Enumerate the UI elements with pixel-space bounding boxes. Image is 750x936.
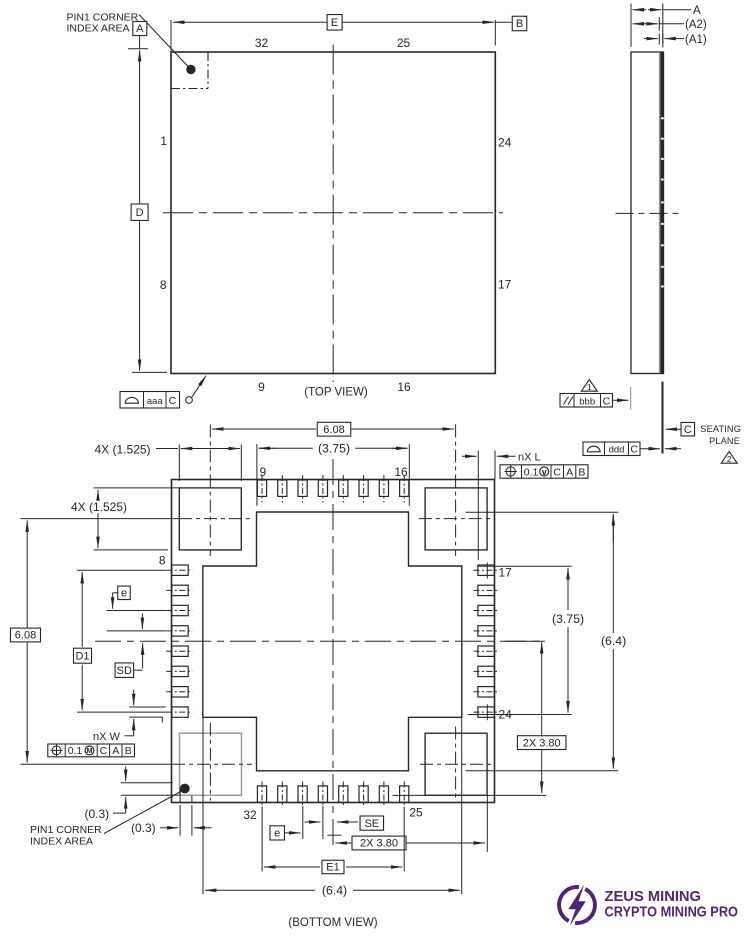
svg-text:9: 9 [258,380,265,394]
svg-text:(0.3): (0.3) [131,821,156,835]
svg-text:C: C [630,444,638,456]
svg-text:A: A [566,466,573,478]
svg-text:nX L: nX L [518,451,541,463]
dim A leader [663,9,691,11]
C arrow to seating plane [666,428,682,430]
nX L outer arrow [462,455,477,457]
chamfer right edge [191,795,193,802]
seating plane line [662,382,664,454]
nX L right extension [494,451,496,480]
dim A1 left arrow [644,38,658,40]
E1 right arrow [346,866,402,868]
bbb arrow [612,399,629,401]
SE leader arrow [337,821,358,823]
svg-text:B: B [516,18,523,30]
top view package outline [171,52,495,374]
extension tick through pin 17 [486,563,488,579]
3.75 top left arrow [259,447,275,449]
chamfer top reference line [121,782,173,784]
svg-text:16: 16 [397,380,411,394]
D dim top tick [128,48,148,50]
E1 left arrow [264,866,320,868]
pin 21 [478,646,494,656]
svg-text:24: 24 [498,136,512,150]
svg-text:2X 3.80: 2X 3.80 [360,838,398,850]
dim A2 line right arrow [645,23,658,25]
pin 5 [172,626,188,636]
svg-text:M: M [86,746,92,755]
6.4 right dim lower arrow [612,649,614,769]
aaa leader arrow to bottom edge [192,376,207,398]
svg-text:25: 25 [409,806,423,820]
E dim line to B box [495,21,511,23]
6.4 bottom left extension [202,717,204,894]
pin 2 [172,687,188,697]
top-right pad vertical centerline [455,425,457,557]
W arrow down [133,690,135,706]
6.4 bottom right extension [461,717,463,894]
note flag triangle 1 [581,380,597,392]
A1 left extension [658,34,660,45]
pad right edge extension down [486,795,488,852]
pin1 bottom edge extension [129,716,162,718]
pin1 bottom ext tick [161,717,163,722]
e bottom inner arrow [305,821,321,823]
dim A1 leader [676,38,684,40]
corner pad top-left [179,488,241,550]
pad top edge extension left [94,487,180,489]
SD leader elbow [133,669,143,671]
pin 16 [400,480,409,496]
position tolerance frame nX L [500,465,588,479]
svg-text:PIN1 CORNER: PIN1 CORNER [30,824,102,836]
svg-text:9: 9 [259,465,266,479]
3.75 top right extension [408,444,410,506]
3.75 top left extension [256,444,258,506]
6.4 bottom left arrow [205,889,315,891]
e bottom leader arrow [285,832,301,834]
svg-text:e: e [274,828,280,840]
svg-text:SE: SE [364,818,379,830]
top view vertical centerline [332,45,334,383]
E dim line left half [173,21,327,23]
svg-text:A: A [112,745,119,757]
pad bottom edge extension left [94,549,168,551]
pin 19 [478,605,494,615]
pad bottom edge extension left [121,794,179,796]
aaa leader circle [186,397,193,404]
svg-text:INDEX AREA: INDEX AREA [67,23,130,35]
pad right edge extension up [240,445,242,482]
pin24 bottom edge extension [468,714,572,716]
3.75 right upper arrow [567,568,569,600]
6.08 left dim lower [26,642,28,763]
top view group [67,11,527,408]
dim E label box [327,15,342,30]
D dim bottom tick [132,371,167,373]
svg-text:ddd: ddd [609,444,625,455]
pad bottom extension through pin 25 [393,794,547,796]
svg-text:25: 25 [397,36,411,50]
svg-text:(3.75): (3.75) [552,612,584,626]
bottom-right pad vertical centerline [455,727,457,801]
4X 1.525 left arrow [181,448,196,450]
dim A2 leader [659,23,684,25]
2X 3.80 bottom left arrow [335,842,352,844]
svg-text:17: 17 [499,566,513,580]
extension tick through pin 24 [486,704,488,720]
pin 29 [318,786,327,802]
pin 25 [400,786,409,802]
svg-text:PIN1 CORNER: PIN1 CORNER [67,11,139,23]
logo lightning bolt [568,884,586,926]
profile ddd C feature frame [583,442,640,456]
svg-text:24: 24 [499,708,513,722]
pin8 centerline extension [77,569,166,571]
svg-text:aaa: aaa [147,396,164,407]
svg-text:(3.75): (3.75) [318,441,350,455]
0.3 vert up arrow [125,797,127,809]
A dim right extension [662,4,664,48]
position tolerance frame nX W [48,744,135,757]
pin6 centerline extension [107,610,167,612]
pin 28 [339,786,348,802]
top view horizontal centerline [163,212,503,214]
svg-text:CRYPTO MINING PRO: CRYPTO MINING PRO [605,904,739,921]
chamfer left edge [179,788,181,802]
svg-text:e: e [121,588,127,600]
pin 12 [318,480,327,496]
pin1 top edge extension [129,706,165,708]
top-right pad horizontal centerline [419,518,494,520]
ddd arrow right side [665,448,681,450]
pin 17 [478,565,494,575]
svg-text:C: C [553,466,561,478]
bottom view group [11,422,632,929]
corner pad top-right [425,488,487,550]
pin1 index area box right edge [207,52,209,89]
datum A box [133,22,147,36]
svg-text:16: 16 [394,465,408,479]
bottom-left pad horizontal centerline [172,763,252,765]
0.3 horiz arrow left [194,827,212,829]
dim A line right arrow [648,9,661,11]
bottom view package outline [172,480,495,803]
SD arrow up to centerline [142,643,144,668]
svg-text:2X 3.80: 2X 3.80 [523,737,561,749]
svg-text:bbb: bbb [579,396,595,407]
4X 1.525 leader [156,448,178,450]
pin 7 [172,585,188,595]
dim D label box [131,204,148,221]
svg-text:8: 8 [160,278,167,292]
svg-text:B: B [125,745,132,757]
dim e bottom box [270,826,285,840]
D dim line upper [139,50,141,203]
corner pad bottom-left (pin1, grey) [180,733,242,795]
parallelism bbb C feature frame [560,394,613,408]
pin 14 [359,480,368,496]
e leader elbow [113,592,118,594]
svg-text:4X (1.525): 4X (1.525) [71,500,127,514]
pin 3 [172,666,188,676]
4X 1.525 dim line [181,448,240,450]
side view centerline [616,212,680,214]
svg-text:C: C [684,424,692,436]
pin 31 [278,786,287,802]
svg-text:6.08: 6.08 [323,424,344,436]
4X 1.525 vert up arrow [97,490,99,502]
svg-text:(A2): (A2) [685,19,707,31]
svg-text:A: A [136,23,144,35]
bottom-right pad horizontal centerline [420,763,492,765]
nX L left extension [477,451,479,561]
svg-text:1: 1 [587,382,592,392]
E1 right extension [403,807,405,872]
svg-text:D: D [136,207,144,219]
svg-text:E1: E1 [326,862,339,874]
bottom-left pad vertical centerline [209,723,211,801]
svg-text:(6.4): (6.4) [601,634,626,648]
dim 4X 1.525 left text [66,501,132,513]
svg-text:SEATING: SEATING [700,424,741,434]
svg-text:v: v [542,467,547,477]
dim 2X 3.80 right box [517,736,566,750]
side view group [560,4,741,465]
pin 6 [172,605,188,615]
svg-text:32: 32 [255,36,269,50]
dim 6.08 top box [317,422,351,436]
pin 10 [278,480,287,496]
dim SE box [360,816,384,830]
svg-text:32: 32 [243,808,257,822]
svg-text:17: 17 [498,278,512,292]
pin1 index dot (top view) [186,65,195,74]
nX L arrow from text [497,455,516,457]
cross bottom edge extension right [466,770,619,772]
dim e left box [118,586,131,600]
pin 18 [478,585,494,595]
side view lead inner edge [658,52,660,374]
pin 24 [478,707,494,717]
pin 23 [478,687,494,697]
2X 3.80 right upper arrow [541,642,543,736]
svg-text:SD: SD [117,665,132,677]
svg-text:INDEX AREA: INDEX AREA [30,836,93,848]
svg-text:D1: D1 [75,650,89,662]
6.08 top dim line right [352,428,455,430]
6.08 top dim line left [212,428,316,430]
svg-text:C: C [603,396,611,408]
datum C box [681,422,695,436]
0.3 vert down arrow [125,767,127,782]
pin1 index area box bottom edge [171,88,208,90]
dim 6.4 right text [596,635,632,648]
bbb extension line [630,387,632,410]
E dim left extension [170,20,172,52]
svg-text:ZEUS MINING: ZEUS MINING [605,888,702,905]
pin17 top edge extension [477,565,571,567]
svg-text:1: 1 [160,134,167,148]
note flag triangle 2 [721,452,737,464]
pin 27 [359,786,368,802]
svg-text:0.1: 0.1 [68,745,83,757]
pin1 centerline extension [77,711,167,713]
4X 1.525 right arrow [225,448,240,450]
pad left edge extension up [178,445,180,482]
svg-text:B: B [578,466,585,478]
top-left pad horizontal centerline [179,518,250,520]
W leader elbow [125,735,134,737]
dim D1 box [74,648,92,663]
D1 dim lower arrow [81,665,83,711]
pin 26 [379,786,388,802]
pin 4 [172,646,188,656]
4X 1.525 vert down arrow [97,513,99,548]
svg-text:6.08: 6.08 [15,630,36,642]
E dim right extension [494,20,496,46]
A dim left extension [630,4,632,48]
D dim line lower [139,221,141,371]
side view body outline [631,52,664,374]
corner pad bottom-right [425,733,487,795]
0.3 horiz arrow right [160,827,178,829]
svg-text:0.1: 0.1 [524,466,539,478]
0.3 horiz left extension [179,805,181,836]
6.4 right dim upper arrow [612,514,614,542]
0.3 horiz right extension [191,805,193,836]
datum B box [512,16,527,31]
3.75 right lower arrow [567,627,569,713]
pin 30 [298,786,307,802]
e second arrow down [141,614,143,630]
A1 right extension [662,34,664,45]
pin 9 [257,480,266,496]
svg-text:PLANE: PLANE [709,436,740,446]
svg-text:(BOTTOM VIEW): (BOTTOM VIEW) [288,917,377,929]
pin 15 [379,480,388,496]
dim A line left arrow [633,9,647,11]
dim A2 line left arrow [633,23,647,25]
cross top edge extension right [466,511,619,513]
A box to tick stem [139,36,141,49]
pin5 centerline extension [107,630,167,632]
svg-text:2: 2 [727,454,732,464]
pin 8 [172,565,188,575]
dim 6.4 bottom text [317,884,353,897]
pin 11 [298,480,307,496]
2X 3.80 bottom right arrow [406,842,485,844]
svg-text:4X (1.525): 4X (1.525) [95,442,151,456]
bottom view vertical centerline [332,459,334,848]
6.08 left dim upper [26,520,28,630]
D1 dim upper arrow [81,572,83,647]
zeus mining logo group [559,884,738,926]
dim SD box [115,663,134,678]
dim 2X 3.80 bottom box [352,836,406,850]
dim A1 right arrow [664,38,676,40]
dim 3.75 right text [547,612,589,625]
pin 13 [339,480,348,496]
e leader arrow down [112,593,114,609]
svg-text:(A1): (A1) [685,34,707,46]
svg-text:nX W: nX W [93,731,121,743]
svg-text:A: A [693,5,701,17]
bottom view horizontal centerline [95,640,545,642]
pin 20 [478,626,494,636]
side view lead band [660,52,663,374]
pin1 index dot (bottom view) [180,784,190,794]
3.75 top right arrow [392,447,408,449]
svg-text:8: 8 [159,554,166,568]
left 6.08 bottom reference line [21,763,173,765]
dim 3.75 top text [313,442,355,455]
svg-text:(6.4): (6.4) [322,883,347,897]
dim E1 box [322,860,344,874]
left 6.08 top reference line [21,518,180,520]
flatness aaa C feature frame [120,392,180,409]
centerline extension right [505,640,545,642]
tick on centerline [327,834,341,836]
top-left pad vertical centerline [209,425,211,557]
pin 1 [172,707,188,717]
pin1 leader line [139,15,189,68]
logo ring [559,887,579,921]
pin 22 [478,666,494,676]
E dim line right half [343,21,494,23]
6.4 bottom right arrow [353,889,460,891]
svg-text:(TOP VIEW): (TOP VIEW) [304,387,368,399]
ddd arrow left side [640,448,660,450]
exposed thermal pad cross [203,512,462,771]
A2 extension [658,17,660,31]
2X 3.80 right lower arrow [541,750,543,794]
pin 32 [257,786,266,802]
pin1 leader line bottom [104,791,183,834]
pin29 centerline extension down [302,806,304,839]
W arrow up [133,719,135,727]
pin28 centerline extension down [322,806,324,839]
dim 6.08 left box [11,628,41,642]
svg-text:E: E [331,17,338,29]
E1 left extension [261,807,263,872]
svg-text:C: C [100,745,108,757]
0.3 vert leader elbow [113,812,126,814]
svg-text:C: C [169,395,177,407]
svg-text:(0.3): (0.3) [85,807,110,821]
